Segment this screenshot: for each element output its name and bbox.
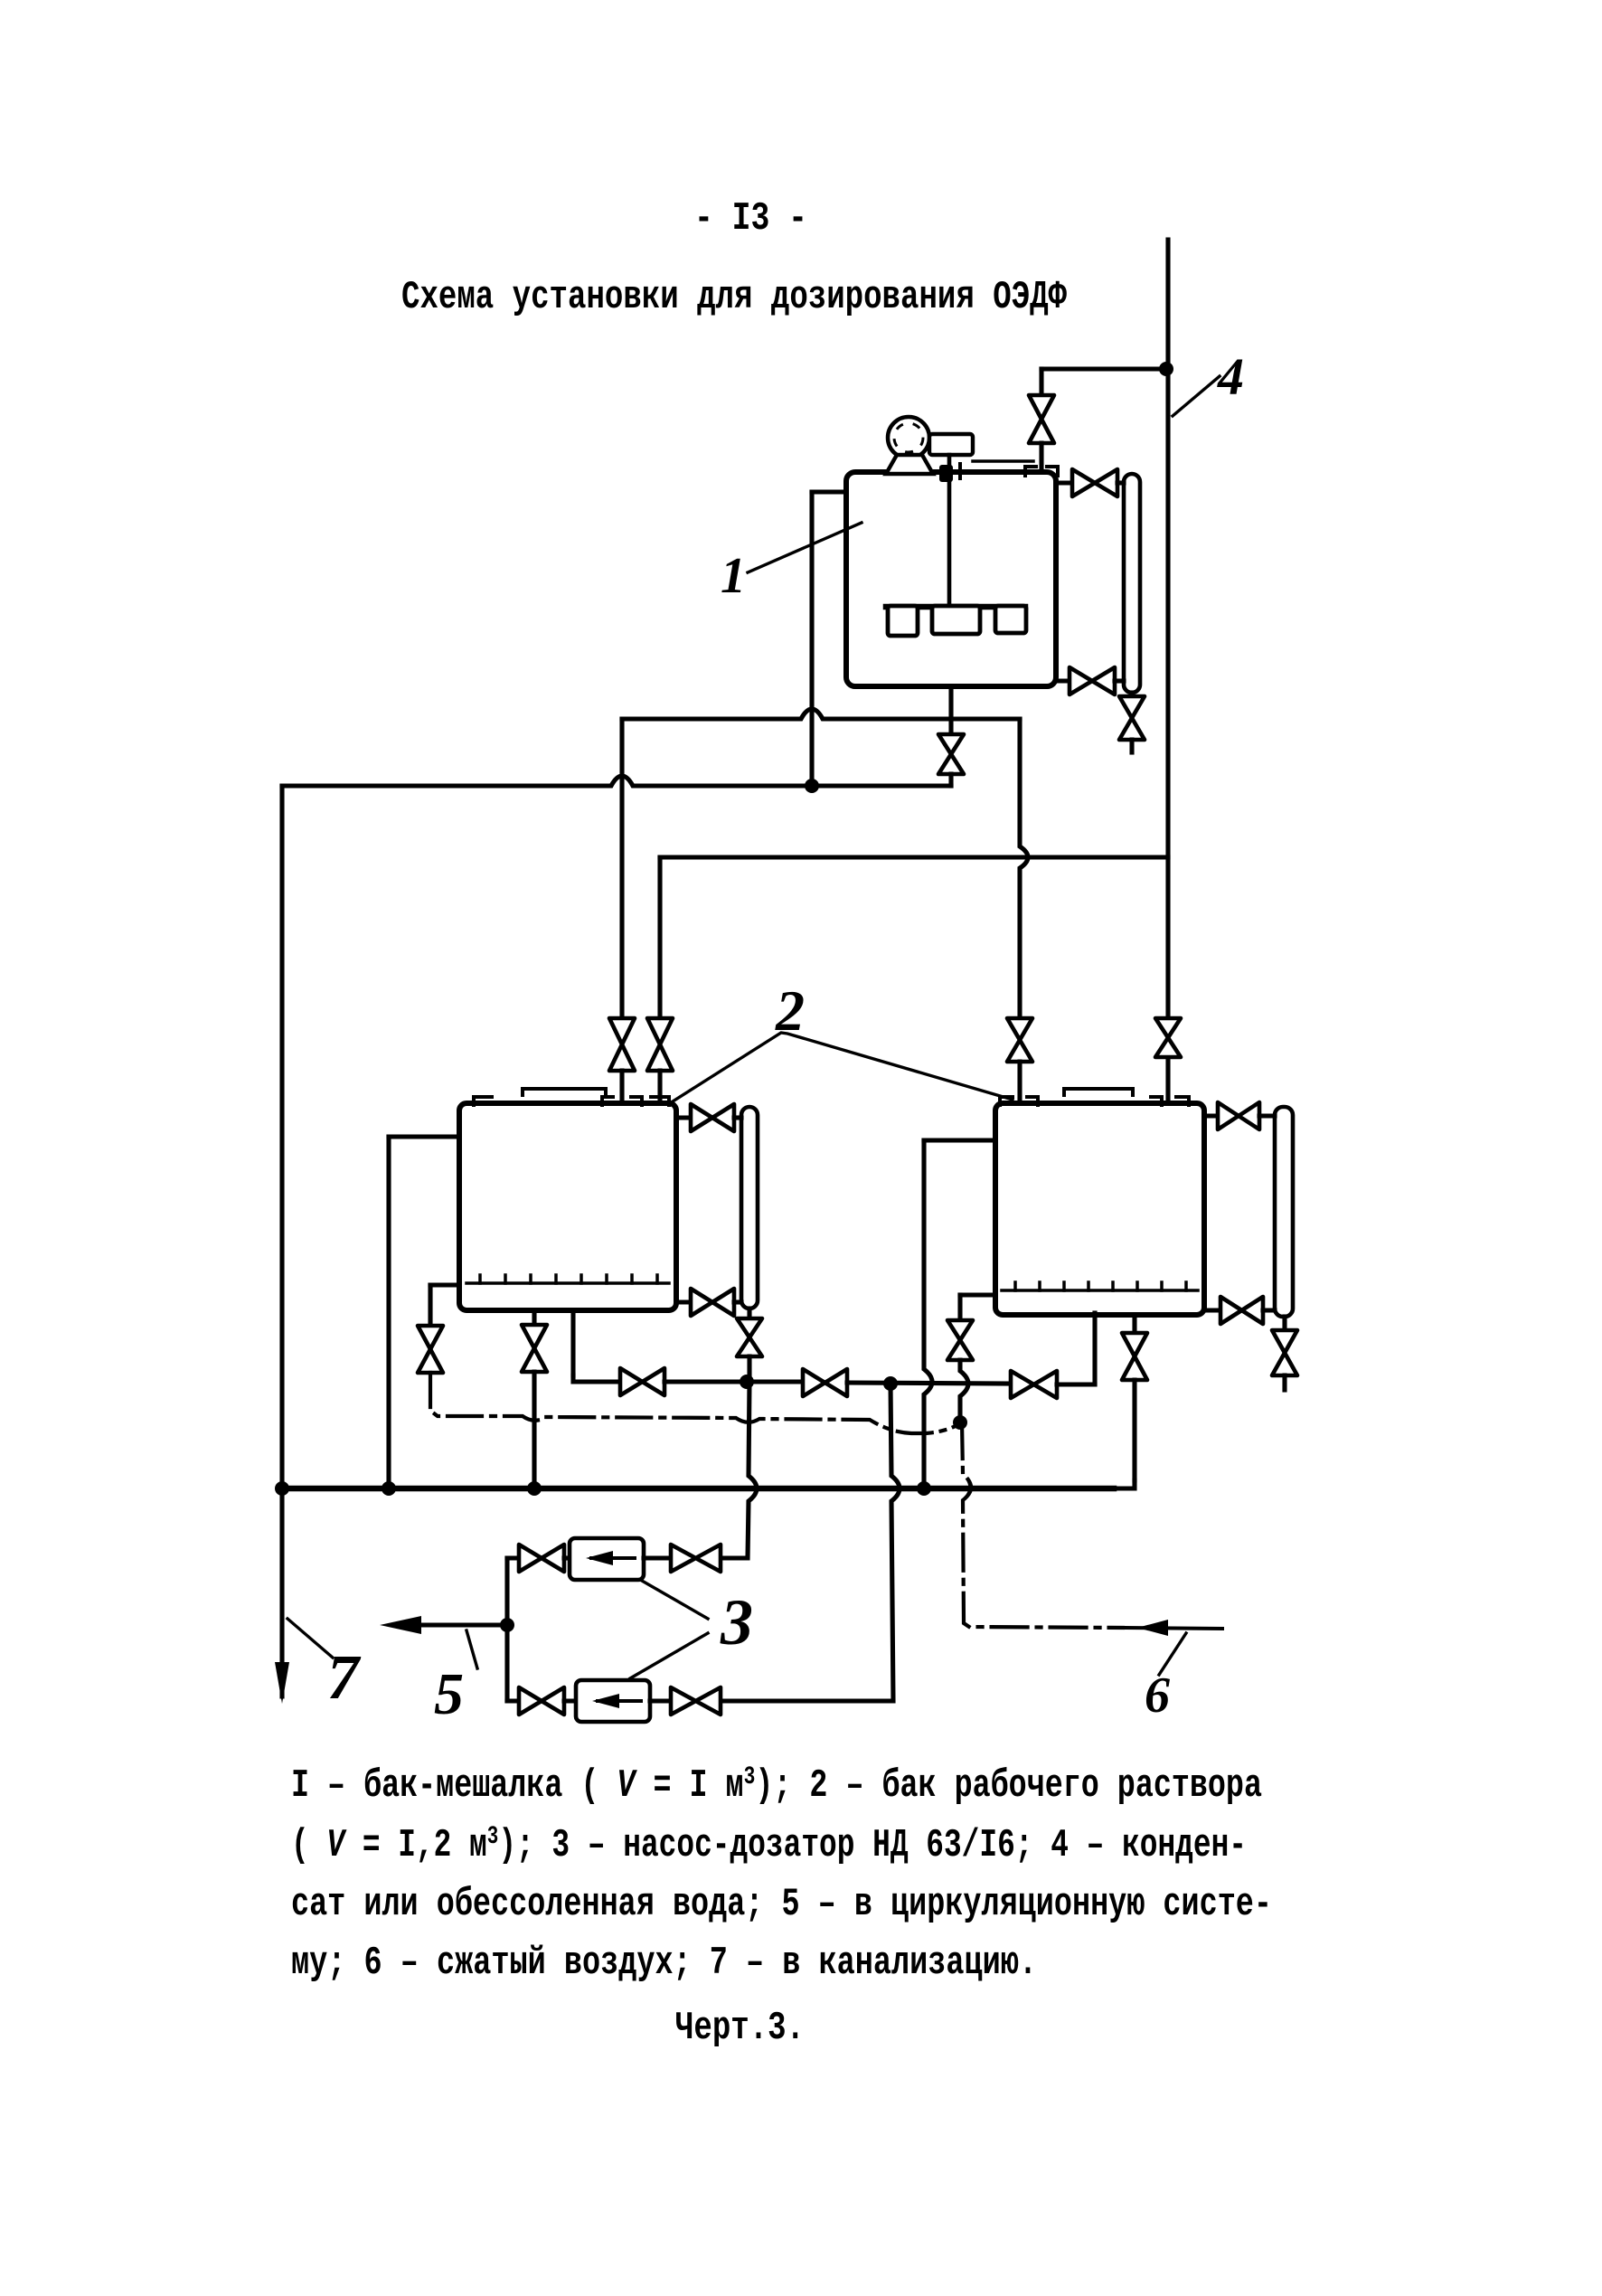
svg-text:( V = I,2 м3); 3 – насос-дозат: ( V = I,2 м3); 3 – насос-дозатор НД 63/I…: [291, 1823, 1247, 1868]
svg-text:Черт.3.: Черт.3.: [675, 2006, 805, 2051]
svg-text:1: 1: [721, 548, 746, 604]
svg-text:5: 5: [434, 1661, 464, 1727]
svg-text:4: 4: [1217, 347, 1244, 406]
svg-text:му; 6 – сжатый воздух; 7 – в к: му; 6 – сжатый воздух; 7 – в канализацию…: [291, 1941, 1037, 1986]
svg-text:2: 2: [775, 978, 805, 1043]
svg-text:Схема установки для дозировани: Схема установки для дозирования ОЭДФ: [401, 275, 1067, 320]
svg-text:I – бак-мешалка ( V = I м3); 2: I – бак-мешалка ( V = I м3); 2 – бак раб…: [291, 1763, 1262, 1809]
svg-text:- I3 -: - I3 -: [694, 196, 807, 241]
svg-text:3: 3: [720, 1586, 753, 1658]
svg-text:сат или обессоленная вода; 5 –: сат или обессоленная вода; 5 – в циркуля…: [291, 1882, 1272, 1927]
svg-text:6: 6: [1145, 1668, 1170, 1724]
svg-text:7: 7: [327, 1643, 362, 1713]
